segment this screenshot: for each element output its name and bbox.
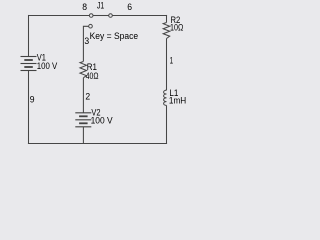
svg-text:3: 3 [84,36,89,47]
svg-text:100 V: 100 V [91,116,113,126]
switch J1 lower throw contact circle (open) [89,24,93,28]
wire middle branch (J1 lower throw to R1, node 3) [83,26,88,61]
svg-text:9: 9 [30,95,35,106]
wire right mid (node 1, R2 to L1) [166,39,168,91]
svg-text:6: 6 [127,2,132,13]
svg-text:100 V: 100 V [37,61,58,71]
wire right lower (L1 to bottom) [166,105,168,144]
battery V1 [21,57,37,71]
svg-text:2: 2 [85,92,90,103]
switch J1 lever (closed across top wire) [93,15,109,17]
wire left upper (V1 top) [28,15,30,56]
svg-text:40Ω: 40Ω [86,71,99,81]
switch J1 right contact circle [109,14,113,18]
wire top right (node 6 segment, J1 to R2) [112,15,167,17]
wire bottom [28,143,167,145]
wire middle lower (V2 to bottom wire) [82,127,84,144]
resistor R1 [80,62,87,78]
inductor L1 [164,90,167,105]
svg-text:Key = Space: Key = Space [90,31,139,41]
svg-text:8: 8 [82,2,87,13]
wire left lower (node 9, V1 to bottom) [28,71,30,144]
resistor R2 [163,23,170,39]
svg-text:J1: J1 [97,1,104,12]
wire middle (R1 to V2, node 2) [82,78,84,113]
wire top left (node 8 segment, V1 to J1) [28,15,89,17]
svg-text:1: 1 [170,56,174,67]
battery V2 [75,113,91,127]
svg-text:1mH: 1mH [169,95,186,105]
wire right upper (node 6 down to R2) [166,15,168,23]
switch J1 left contact circle [89,14,93,18]
svg-text:10Ω: 10Ω [170,23,184,33]
